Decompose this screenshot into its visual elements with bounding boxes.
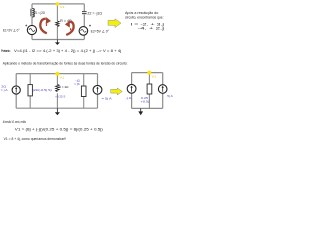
node V1 circuit1 xyxy=(56,2,60,6)
svg-text:V1: V1 xyxy=(152,75,157,79)
wire branch impedance1 circuit2 xyxy=(29,74,31,109)
wire branch resistor circuit2 xyxy=(56,74,58,109)
inductor Z1 xyxy=(31,9,34,17)
svg-text:V1: V1 xyxy=(60,5,65,9)
svg-text:R = 4Ω: R = 4Ω xyxy=(59,85,70,89)
impedance box Z2 circuit2 xyxy=(81,86,86,97)
svg-text:E2=5V ∠ 0°: E2=5V ∠ 0° xyxy=(91,29,110,33)
current source IS2 xyxy=(93,85,102,94)
wire bottom circuit2 xyxy=(16,107,97,109)
wire middle branch circuit1 xyxy=(56,4,58,40)
svg-text:Z2 = -j1Ω: Z2 = -j1Ω xyxy=(87,11,102,15)
ground circuit1 xyxy=(55,40,60,46)
current source IS4 xyxy=(158,85,167,94)
node V1 circuit2 xyxy=(55,72,59,76)
polarity plus E2 xyxy=(89,25,91,27)
wire branch impedance2 circuit2 xyxy=(83,74,85,109)
svg-text:= j A: = j A xyxy=(1,88,8,92)
polarity plus E1 xyxy=(25,25,27,27)
svg-text:V1 = (8j + (-j))/(0.25 + 0.5j): V1 = (8j + (-j))/(0.25 + 0.5j) = 8j/(0.2… xyxy=(15,127,103,131)
label mesh current I1 xyxy=(45,24,47,26)
svg-text:+0.25 S: +0.25 S xyxy=(55,94,65,98)
svg-text:Após a resolução do: Após a resolução do xyxy=(125,11,158,15)
source E1 xyxy=(27,25,36,34)
wire left edge circuit3 xyxy=(131,73,133,109)
svg-text:-j A: -j A xyxy=(125,96,131,100)
callout arrow 2 xyxy=(111,88,123,95)
wire right edge circuit3 xyxy=(162,73,164,109)
svg-text:circuito, encontramos que:: circuito, encontramos que: xyxy=(125,15,164,19)
ground circuit3 xyxy=(138,108,143,115)
label mesh current I2 xyxy=(70,28,72,30)
mesh current I1 xyxy=(40,17,51,33)
wire top circuit1 xyxy=(32,3,84,5)
wire bottom circuit1 xyxy=(32,39,84,41)
wire left edge circuit2 xyxy=(15,74,17,109)
impedance box Z1 circuit2 xyxy=(28,85,32,96)
svg-text:+0.5j: +0.5j xyxy=(141,100,150,104)
current source IS1 xyxy=(12,86,20,94)
svg-text:= 5j A: = 5j A xyxy=(102,96,112,100)
svg-text:= jS: = jS xyxy=(74,82,80,86)
svg-text:V1: V1 xyxy=(60,75,65,79)
wire right branch circuit1 xyxy=(83,4,85,40)
wire left branch circuit1 xyxy=(31,4,33,40)
current source IS3 xyxy=(127,84,136,93)
svg-text:Portanto: V=4.(I1 - I2 => 4.(: Portanto: V=4.(I1 - I2 => 4.(-2 + 3j + 4… xyxy=(1,49,121,53)
ground circuit2 xyxy=(55,108,60,115)
admittance box circuit3 xyxy=(147,84,152,94)
wire bottom circuit3 xyxy=(132,107,163,109)
svg-text:5j A: 5j A xyxy=(167,94,173,98)
svg-text:Z1 = j2Ω: Z1 = j2Ω xyxy=(34,11,45,15)
svg-text:V1 = 8 + 4j, como queríamos de: V1 = 8 + 4j, como queríamos demonstrar!! xyxy=(4,137,67,141)
source E2 xyxy=(79,27,88,36)
svg-text:Aplicando o método de transfor: Aplicando o método de transformação de f… xyxy=(3,62,128,66)
svg-text:E1=2V ∠ 0°: E1=2V ∠ 0° xyxy=(3,28,20,32)
wire top circuit2 xyxy=(16,73,97,75)
callout arrow 1 xyxy=(108,19,121,28)
resistor R circuit2 xyxy=(56,84,60,91)
resistor R circuit1 xyxy=(56,21,59,27)
svg-text:j2Ω(-0.5j S): j2Ω(-0.5j S) xyxy=(32,88,52,92)
mesh current I2 xyxy=(65,21,74,35)
svg-text:A tensão V1 será, então: A tensão V1 será, então xyxy=(3,120,26,124)
wire middle branch circuit3 xyxy=(148,73,150,109)
wire right edge circuit2 xyxy=(97,74,99,109)
capacitor Z2 xyxy=(82,12,87,14)
node V1 circuit3 xyxy=(147,71,151,75)
wire top circuit3 xyxy=(132,72,163,74)
svg-text:-4. + 2.j: -4. + 2.j xyxy=(138,27,165,31)
